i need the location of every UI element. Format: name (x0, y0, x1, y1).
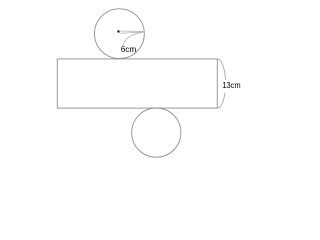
svg-text:6cm: 6cm (121, 44, 137, 54)
rectangle (lateral surface of cylinder net) (57, 59, 217, 108)
label 6cm (121, 44, 137, 54)
svg-text:13cm: 13cm (222, 80, 240, 90)
label 13cm (222, 80, 240, 90)
center dot of top circle (118, 30, 120, 32)
label background 13cm (221, 80, 241, 93)
leader lower line (120, 32, 144, 33)
bottom circle (132, 108, 181, 157)
radius line (119, 30, 144, 33)
leader curve (123, 32, 144, 46)
top circle (95, 9, 145, 59)
right edge arc (217, 59, 225, 108)
